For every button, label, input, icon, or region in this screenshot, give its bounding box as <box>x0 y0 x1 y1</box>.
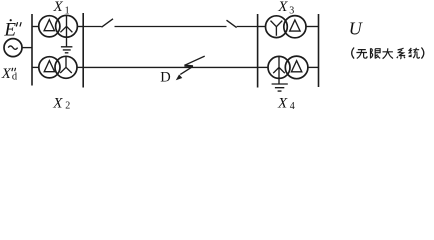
svg-text:X: X <box>1 66 12 82</box>
wire bus1 to T2 <box>32 66 39 68</box>
fullwidth right paren <box>421 48 423 59</box>
bus 4 (infinite system bus) <box>318 14 320 87</box>
top transmission line segment 3 <box>237 26 258 28</box>
svg-text:E: E <box>3 19 16 40</box>
wire bus3 to T4 <box>258 66 268 68</box>
label E'' (dot) <box>10 19 12 21</box>
wire T3 to bus4 <box>306 26 319 28</box>
T4 delta winding <box>291 61 301 72</box>
transformer T2 primary circle <box>39 57 60 78</box>
transformer T1 primary circle <box>39 16 60 37</box>
fault lightning middle bar <box>184 64 193 67</box>
transformer T3 secondary circle <box>284 16 306 38</box>
char tong (unite) <box>409 48 420 58</box>
wire bus1 to T1 <box>32 26 39 28</box>
transformer T4 secondary circle <box>285 56 308 79</box>
transformer T1 secondary circle <box>56 15 78 37</box>
top transmission line middle segment <box>115 26 227 28</box>
T4 ground stem <box>278 78 280 84</box>
char xi (system) <box>397 48 405 59</box>
svg-text:4: 4 <box>290 101 295 111</box>
generator tilde <box>8 46 17 49</box>
bus 3 (right HV bus) <box>257 14 259 88</box>
char wu (none/infinite) <box>356 50 367 59</box>
transformer T3 primary circle <box>266 16 288 38</box>
svg-text:1: 1 <box>65 5 70 16</box>
svg-text:X: X <box>277 96 288 111</box>
T2 wye winding <box>60 57 72 73</box>
fullwidth left paren <box>352 48 354 59</box>
svg-text:2: 2 <box>65 100 70 111</box>
wire T2 to bus2 <box>77 66 83 68</box>
wire generator to bus1 <box>22 47 32 49</box>
fault lightning stroke lower <box>180 66 193 74</box>
top transmission line segment 1 <box>83 26 101 28</box>
bus 1 (generator bus) <box>31 14 33 86</box>
char da (big) <box>383 48 394 58</box>
T2 delta winding <box>44 61 54 72</box>
T1 wye winding grounded <box>60 16 72 33</box>
svg-text:X: X <box>53 0 64 15</box>
transformer T4 primary circle <box>268 56 290 78</box>
T1 delta winding <box>44 20 54 31</box>
ground under T1 <box>61 47 73 53</box>
fault lightning stroke upper <box>185 56 205 65</box>
chinese caption: (infinite bus system), drawn as paths <box>352 48 424 59</box>
svg-text:X: X <box>277 0 288 15</box>
label E'' primes <box>16 22 21 26</box>
switch blade right <box>227 20 237 27</box>
svg-text:U: U <box>349 18 363 38</box>
bottom transmission line <box>83 66 257 68</box>
svg-text:D: D <box>160 69 170 85</box>
generator G circle <box>4 39 22 57</box>
T3 wye winding <box>271 21 283 36</box>
switch blade left <box>102 19 114 27</box>
T1 ground stem <box>66 26 68 46</box>
T3 delta winding <box>290 20 300 31</box>
svg-text:X: X <box>52 95 63 111</box>
char xian (limit) <box>371 48 381 58</box>
ground under T4 <box>272 84 288 91</box>
label X''d primes <box>12 68 16 71</box>
T4 wye winding grounded <box>273 57 285 79</box>
fault lightning arrowhead <box>176 74 183 80</box>
wire T1 to bus2 <box>77 26 83 28</box>
svg-text:3: 3 <box>289 5 294 16</box>
wire T4 to bus4 <box>308 66 319 68</box>
svg-text:d: d <box>12 72 18 83</box>
transformer T2 secondary circle <box>55 56 77 78</box>
bus 2 (left HV bus) <box>82 13 84 88</box>
wire bus3 to T3 <box>258 26 266 28</box>
